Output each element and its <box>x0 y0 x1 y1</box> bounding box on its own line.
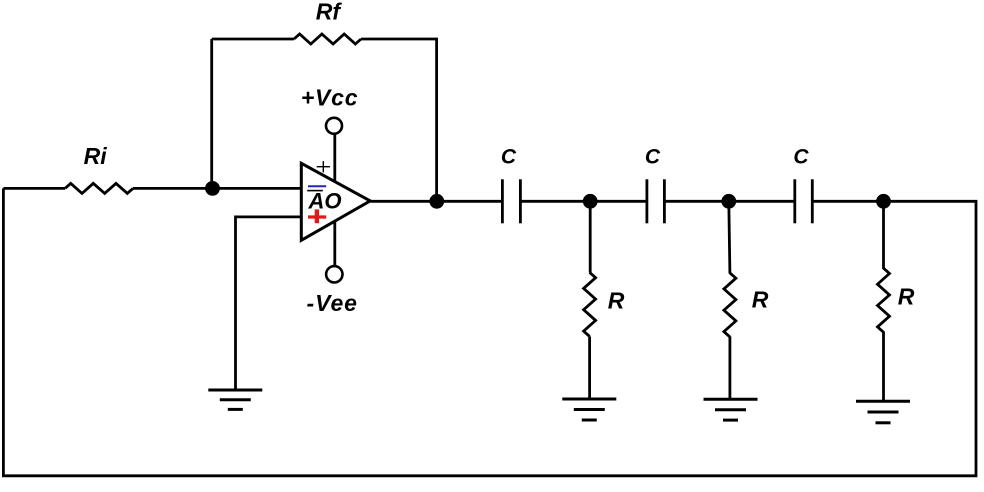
svg-text:-Vee: -Vee <box>307 290 358 316</box>
svg-text:+Vcc: +Vcc <box>301 85 359 111</box>
svg-text:C: C <box>645 146 661 169</box>
svg-text:R: R <box>898 283 915 309</box>
svg-text:AO: AO <box>308 188 342 213</box>
svg-text:R: R <box>752 287 769 313</box>
svg-text:Ri: Ri <box>84 143 108 169</box>
svg-text:C: C <box>793 145 809 168</box>
svg-text:R: R <box>608 288 625 314</box>
svg-text:Rf: Rf <box>316 0 343 25</box>
svg-text:C: C <box>501 146 517 169</box>
